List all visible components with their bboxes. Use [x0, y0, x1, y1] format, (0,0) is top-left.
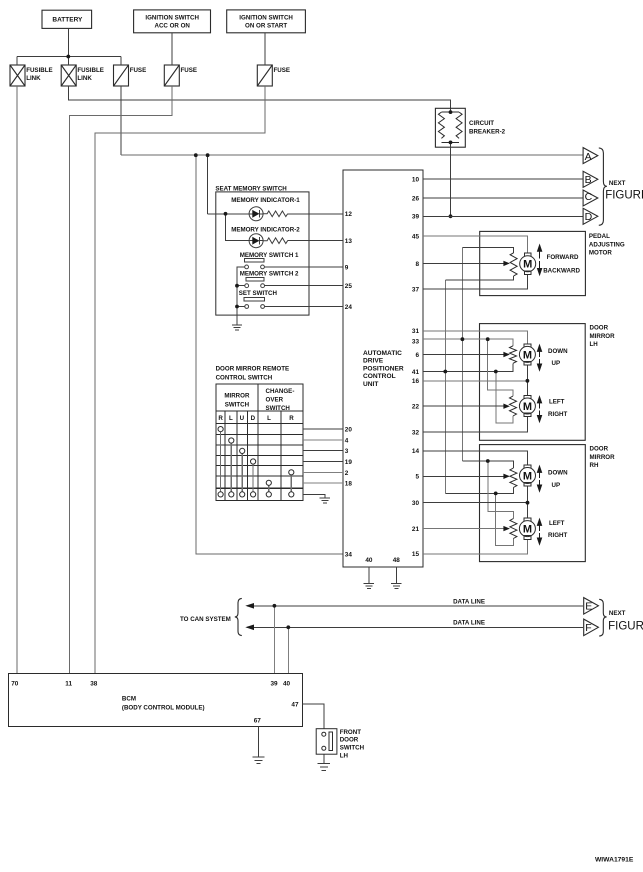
svg-text:41: 41: [412, 369, 420, 376]
contact circle CO-R: [289, 470, 294, 475]
wire pin 26 to arrow C: [423, 197, 583, 199]
svg-text:16: 16: [412, 378, 420, 385]
wire LED1 branch down to LED2: [226, 214, 250, 241]
svg-text:3: 3: [345, 448, 349, 455]
control unit U1: automatic drive positioner control unit box: [343, 170, 423, 567]
svg-text:OVER: OVER: [266, 397, 284, 404]
svg-text:47: 47: [291, 702, 299, 709]
arrow forward up: [539, 251, 541, 259]
svg-text:RIGHT: RIGHT: [548, 532, 567, 539]
wire branch RH pot2 top: [488, 461, 514, 519]
arrowhead pin 8 wiper: [503, 261, 510, 266]
svg-text:26: 26: [412, 195, 420, 202]
svg-text:11: 11: [65, 680, 72, 687]
svg-text:SET SWITCH: SET SWITCH: [239, 290, 278, 297]
wire branch LH pot2 top: [488, 339, 513, 396]
svg-text:A: A: [585, 151, 592, 163]
circuit breaker element bottom bar: [441, 141, 459, 143]
svg-text:DOOR MIRROR REMOTE: DOOR MIRROR REMOTE: [216, 365, 290, 372]
svg-text:FUSE: FUSE: [130, 67, 147, 74]
svg-text:31: 31: [412, 328, 420, 335]
mirror switch table outer box: [216, 384, 303, 501]
memory switch 1 contacts: [245, 265, 249, 269]
connector arrow B: [583, 171, 598, 187]
BCM body control module box: [9, 674, 303, 727]
fusible link FL2 box: [61, 65, 76, 86]
fuse F3 box: [257, 65, 272, 86]
svg-text:FUSIBLE: FUSIBLE: [26, 67, 52, 74]
svg-text:BATTERY: BATTERY: [52, 17, 83, 24]
resistor R1: [263, 211, 287, 217]
node pin30 motor junction: [526, 501, 530, 505]
wire CAN upper to BCM pin 39: [273, 606, 275, 674]
wire switch common vertical: [237, 267, 245, 315]
svg-text:37: 37: [412, 286, 420, 293]
wire sensor supply upper (pot tops) vertical: [461, 247, 463, 461]
motor M RH horizontal: [524, 518, 531, 522]
contact circle CO-L: [266, 480, 271, 485]
wire pin34 feed vertical: [196, 155, 343, 554]
svg-text:CONTROL: CONTROL: [363, 373, 396, 380]
svg-text:19: 19: [345, 459, 353, 466]
svg-text:DOOR: DOOR: [340, 737, 359, 744]
svg-text:TO CAN SYSTEM: TO CAN SYSTEM: [180, 616, 231, 623]
svg-text:IGNITION SWITCH: IGNITION SWITCH: [239, 15, 293, 22]
svg-text:MEMORY SWITCH 2: MEMORY SWITCH 2: [240, 271, 299, 278]
ground pin 48: [391, 583, 401, 588]
wire ACC switch to fuse F2: [171, 33, 173, 65]
bottom contact circles: [218, 492, 223, 497]
wire pin 39 to arrow D: [423, 215, 583, 217]
node RH pot1 bottom branch junction: [494, 492, 498, 496]
ground mirror switch table: [320, 498, 330, 503]
wire pin 15 to RH motor2 bottom: [423, 540, 527, 554]
resistor LH mirror sensor 2: [510, 396, 517, 416]
brace TO CAN SYSTEM: [235, 598, 242, 635]
switch front door contacts: [322, 732, 326, 736]
resistor LH mirror sensor 1: [510, 346, 517, 363]
ground front door switch: [318, 764, 330, 771]
door mirror LH box: [480, 324, 586, 441]
wire fuse F2 to BCM pin 11: [70, 86, 173, 674]
svg-text:M: M: [523, 259, 532, 271]
wire table to pin 20: [303, 428, 343, 430]
wire pin 30 to RH motor junction: [423, 502, 528, 504]
motor M pedal: [524, 253, 531, 257]
svg-text:SWITCH: SWITCH: [225, 401, 250, 408]
svg-text:DOWN: DOWN: [548, 348, 568, 355]
node supply/41 junction: [443, 370, 447, 374]
svg-text:LH: LH: [340, 752, 349, 759]
svg-text:34: 34: [345, 552, 353, 559]
svg-text:25: 25: [345, 283, 353, 290]
svg-text:R: R: [289, 415, 294, 422]
svg-text:E: E: [585, 601, 592, 613]
arrow RH down-up: [539, 472, 541, 478]
wire pin 16 to LH motor junction: [423, 380, 527, 382]
svg-text:LEFT: LEFT: [549, 520, 565, 527]
wire CAN data line upper: [247, 605, 583, 607]
wire contact R column: [220, 432, 222, 492]
svg-text:DOOR: DOOR: [590, 324, 609, 331]
wire LED2 to pin 13: [288, 240, 343, 242]
wire pin 67 ground stem: [258, 727, 260, 758]
table row line header2 bottom: [216, 422, 303, 424]
svg-text:24: 24: [345, 304, 353, 311]
svg-text:FUSE: FUSE: [181, 67, 198, 74]
memory switch 2 bar: [246, 278, 264, 281]
svg-text:MEMORY SWITCH 1: MEMORY SWITCH 1: [240, 252, 299, 259]
svg-text:33: 33: [412, 339, 420, 346]
wire bus to FL2: [67, 57, 69, 66]
wire contact D column: [252, 464, 254, 492]
svg-text:PEDAL: PEDAL: [589, 233, 610, 240]
svg-text:RH: RH: [590, 462, 599, 469]
svg-text:48: 48: [393, 557, 401, 564]
arrowhead CAN lower: [245, 625, 254, 631]
svg-text:IGNITION SWITCH: IGNITION SWITCH: [145, 15, 199, 22]
svg-text:BCM: BCM: [122, 696, 136, 703]
ignition switch ON/START box: [227, 10, 306, 33]
node RH pot1 top branch junction: [486, 459, 490, 463]
svg-text:70: 70: [11, 680, 19, 687]
wire CAN lower to BCM pin 40: [287, 627, 289, 673]
wire pin 31 to LH motor1 top: [423, 331, 527, 344]
motor M RH vertical: [524, 465, 531, 469]
svg-text:LH: LH: [590, 341, 599, 348]
svg-text:20: 20: [345, 427, 353, 434]
arrow backward down: [539, 261, 541, 269]
wire pin 41 to LH pot1 bottom: [423, 363, 513, 371]
wire pin 40 ground stem: [368, 567, 370, 583]
svg-text:AUTOMATIC: AUTOMATIC: [363, 350, 402, 357]
wire LH motor1 bottom to motor2 top: [526, 365, 528, 395]
wire pin 5 wiper: [423, 475, 504, 477]
resistor RH mirror sensor 1: [510, 468, 517, 488]
wire fuse F3 to BCM pin 38: [95, 86, 265, 674]
node pin16 motor junction: [526, 379, 530, 383]
contact circle R: [218, 427, 223, 432]
wire table to pin 2: [303, 472, 343, 474]
svg-text:39: 39: [271, 680, 279, 687]
wire RH motor1 bottom to motor2 top: [527, 487, 529, 518]
arrow LH down-up: [539, 351, 541, 357]
motor M LH vertical: [524, 344, 531, 348]
circuit breaker CB-2 outer box: [435, 108, 465, 147]
battery box: [42, 10, 92, 28]
svg-text:9: 9: [345, 264, 349, 271]
svg-text:NEXT: NEXT: [609, 610, 626, 617]
node CAN lower junction: [286, 625, 290, 629]
wire FL2 to circuit breaker: [68, 86, 450, 112]
node CAN upper junction: [273, 604, 277, 608]
node wire A / SMS feed junction: [206, 153, 210, 157]
contact circle U: [240, 448, 245, 453]
svg-text:14: 14: [412, 448, 420, 455]
wire contact L column: [230, 443, 232, 492]
wire bus to FL1: [16, 57, 18, 66]
wire set switch to pin 24: [265, 306, 344, 308]
node battery bus junction: [66, 55, 70, 59]
node switch2 common junction: [235, 284, 239, 288]
ground pin 40: [364, 583, 374, 588]
svg-text:30: 30: [412, 500, 420, 507]
arrowhead pin 22 wiper: [503, 404, 510, 409]
svg-text:L: L: [229, 415, 233, 422]
fusible link FL1 box: [10, 65, 25, 86]
wire switch2 to pin 25: [265, 285, 344, 287]
svg-text:SEAT MEMORY SWITCH: SEAT MEMORY SWITCH: [215, 185, 287, 192]
wire set switch common stub: [237, 306, 245, 308]
wire table to pin 19: [303, 461, 343, 463]
wire branch RH pot2 bottom: [496, 493, 514, 545]
memory switch 2 contacts: [245, 284, 249, 288]
svg-text:6: 6: [415, 352, 419, 359]
node 33/pot2 branch junction: [486, 337, 490, 341]
wire pin 6 wiper: [423, 354, 504, 356]
pedal adjusting motor box: [480, 231, 586, 295]
wire pin 14 to RH motor1 top: [423, 451, 528, 465]
table row line header2 top: [216, 410, 303, 412]
svg-text:(BODY CONTROL MODULE): (BODY CONTROL MODULE): [122, 704, 205, 711]
svg-text:U: U: [240, 415, 245, 422]
brace next figure A-D: [599, 148, 607, 225]
svg-text:L: L: [267, 415, 271, 422]
svg-text:MOTOR: MOTOR: [589, 250, 612, 257]
wire pedal pot top to supply: [462, 247, 513, 252]
wire SMS ground stem: [236, 315, 238, 325]
set switch contacts: [245, 305, 249, 309]
svg-text:BACKWARD: BACKWARD: [543, 268, 580, 275]
wire SMS feed vertical: [207, 155, 209, 214]
svg-text:CONTROL SWITCH: CONTROL SWITCH: [216, 375, 273, 382]
arrow RH left-right: [539, 525, 541, 531]
wire branch LH pot2 bottom: [496, 372, 513, 424]
wire LED1 to pin 12: [288, 213, 343, 215]
svg-text:22: 22: [412, 404, 420, 411]
wire pin 37 to pedal motor bottom: [423, 275, 528, 289]
svg-text:FIGURE: FIGURE: [608, 620, 643, 632]
memory switch 1 bar: [245, 259, 265, 262]
svg-text:ADJUSTING: ADJUSTING: [589, 241, 625, 248]
svg-text:M: M: [523, 524, 532, 536]
node LED feed junction: [224, 212, 228, 216]
arrowhead pin 6 wiper: [503, 352, 510, 357]
wire RH pot1 bottom supply: [445, 488, 513, 494]
svg-text:DOOR: DOOR: [590, 445, 609, 452]
svg-text:M: M: [523, 349, 532, 361]
brace next figure E-F: [599, 599, 606, 636]
arrowhead pin 21 wiper: [503, 526, 510, 531]
wire switch1 to pin 9: [264, 266, 343, 268]
connector arrow E: [584, 598, 599, 615]
svg-text:4: 4: [345, 437, 349, 444]
svg-text:MIRROR: MIRROR: [590, 333, 616, 340]
contact circle D: [251, 459, 256, 464]
svg-text:F: F: [585, 622, 591, 634]
wire SMS feed into LED1: [208, 213, 250, 215]
svg-text:SWITCH: SWITCH: [340, 745, 365, 752]
svg-text:UP: UP: [552, 482, 561, 489]
svg-text:DRIVE: DRIVE: [363, 358, 384, 365]
svg-text:15: 15: [412, 551, 420, 558]
svg-text:40: 40: [283, 680, 291, 687]
wire CAN data line lower: [247, 626, 583, 628]
svg-text:R: R: [218, 415, 223, 422]
wire fuse F1 down: [120, 86, 122, 155]
fuse F2 box: [164, 65, 179, 86]
wire table to pin 4: [303, 439, 343, 441]
connector arrow C: [583, 190, 598, 206]
wire pin 21 wiper: [423, 528, 504, 530]
wire table to pin 3: [303, 450, 343, 452]
connector arrow A: [583, 148, 598, 164]
connector arrow D: [583, 208, 598, 224]
svg-text:67: 67: [254, 718, 262, 725]
contact circle L: [229, 438, 234, 443]
motor M LH horizontal: [524, 396, 531, 400]
wire battery drop: [67, 28, 69, 56]
resistor RH mirror sensor 2: [510, 519, 517, 539]
ignition switch ACC box: [134, 10, 211, 33]
set switch bar: [244, 297, 264, 300]
wire bus to fuse F1: [120, 57, 122, 66]
wire pin 47 to front door switch: [302, 704, 323, 729]
svg-text:ACC OR ON: ACC OR ON: [154, 22, 190, 29]
svg-text:UP: UP: [552, 360, 561, 367]
connector arrow F: [584, 619, 599, 636]
svg-text:UNIT: UNIT: [363, 381, 378, 388]
diode arrow LED2: [252, 237, 259, 245]
svg-text:12: 12: [345, 211, 353, 218]
LED D1: [249, 207, 263, 221]
svg-text:RIGHT: RIGHT: [548, 411, 567, 418]
svg-text:8: 8: [415, 261, 419, 268]
door mirror RH box: [480, 445, 586, 562]
svg-text:D: D: [585, 211, 593, 223]
svg-text:FUSIBLE: FUSIBLE: [77, 67, 103, 74]
wire sensor supply lower (pot bottoms) vertical: [444, 280, 446, 493]
svg-text:C: C: [585, 191, 593, 203]
switch front door plunger bar: [329, 732, 333, 751]
svg-text:DATA LINE: DATA LINE: [453, 598, 485, 605]
seat memory switch box: [216, 192, 309, 315]
arrowhead pin 5 wiper: [503, 474, 510, 479]
node 41/pot2 branch junction: [494, 370, 498, 374]
svg-text:ON OR START: ON OR START: [245, 22, 287, 29]
svg-text:M: M: [523, 401, 532, 413]
circuit breaker element right zigzag: [456, 112, 462, 138]
svg-text:21: 21: [412, 526, 420, 533]
svg-text:CIRCUIT: CIRCUIT: [469, 120, 494, 127]
wire A fuse F1 to arrow A: [121, 154, 583, 156]
wire contact CO-L column: [268, 485, 270, 491]
svg-text:FIGURE: FIGURE: [605, 190, 643, 202]
wire breaker to wire 39/D: [450, 142, 452, 216]
svg-text:10: 10: [412, 177, 420, 184]
svg-text:B: B: [585, 174, 592, 186]
svg-text:2: 2: [345, 470, 349, 477]
switch front door LH box: [316, 729, 337, 755]
svg-text:MEMORY INDICATOR-2: MEMORY INDICATOR-2: [231, 226, 300, 233]
node wire A / pin34 feed junction: [194, 153, 198, 157]
svg-text:45: 45: [412, 234, 420, 241]
wire contact U column: [241, 454, 243, 492]
wire pin 33 to LH pot1 top: [423, 339, 513, 346]
resistor pedal position sensor: [510, 253, 517, 276]
wire pin 22 wiper: [423, 405, 504, 407]
circuit breaker element top bar: [441, 111, 459, 113]
fuse F1 box: [114, 65, 129, 86]
node breaker to wire 39 junction: [449, 214, 453, 218]
svg-text:FUSE: FUSE: [274, 67, 291, 74]
wire pedal pot bottom to supply: [445, 276, 513, 280]
svg-text:FRONT: FRONT: [340, 729, 362, 736]
node breaker top: [449, 110, 453, 114]
svg-text:LINK: LINK: [77, 75, 92, 82]
svg-text:M: M: [523, 471, 532, 483]
wire contact CO-R column: [290, 475, 292, 492]
ground BCM pin 67: [253, 757, 265, 763]
wire table to pin 18: [303, 482, 343, 484]
wire pin 8 wiper: [423, 262, 504, 264]
circuit breaker element left zigzag: [438, 112, 444, 138]
node supply/33 junction: [461, 337, 465, 341]
svg-text:40: 40: [365, 557, 373, 564]
arrowhead CAN upper: [245, 603, 254, 609]
table column lines: [224, 411, 226, 500]
svg-text:18: 18: [345, 480, 353, 487]
svg-text:LINK: LINK: [26, 75, 41, 82]
wire RH pot1 top supply: [462, 461, 513, 468]
svg-text:FORWARD: FORWARD: [547, 254, 579, 261]
wire battery bus: [17, 56, 121, 58]
svg-text:MIRROR: MIRROR: [590, 454, 616, 461]
diode arrow LED1: [252, 210, 259, 218]
LED D2: [249, 234, 263, 248]
svg-text:BREAKER-2: BREAKER-2: [469, 128, 506, 135]
svg-text:DATA LINE: DATA LINE: [453, 619, 485, 626]
resistor R2: [263, 238, 287, 244]
wire pin 10 to arrow B: [423, 178, 583, 180]
svg-text:CHANGE-: CHANGE-: [266, 388, 295, 395]
svg-text:MIRROR: MIRROR: [224, 393, 250, 400]
arrow LH left-right: [539, 403, 541, 409]
wire table ground: [303, 494, 325, 498]
ground SMS: [232, 325, 242, 330]
svg-text:32: 32: [412, 430, 420, 437]
svg-text:POSITIONER: POSITIONER: [363, 365, 404, 372]
svg-text:DOWN: DOWN: [548, 469, 568, 476]
svg-text:5: 5: [415, 474, 419, 481]
wire pin 45 to pedal motor top: [423, 236, 528, 253]
wire ON/START switch to fuse F3: [264, 33, 266, 65]
svg-text:NEXT: NEXT: [609, 180, 626, 187]
svg-text:LEFT: LEFT: [549, 398, 565, 405]
table row lines: [216, 434, 303, 436]
wire switch2 common stub: [237, 285, 245, 287]
wire FL1 down to BCM pin 70: [16, 86, 18, 674]
svg-text:39: 39: [412, 214, 420, 221]
svg-text:MEMORY INDICATOR-1: MEMORY INDICATOR-1: [231, 197, 300, 204]
wire pin 48 ground stem: [395, 567, 397, 583]
svg-text:D: D: [251, 415, 256, 422]
svg-text:WIWA1791E: WIWA1791E: [595, 857, 634, 864]
node set switch common junction: [235, 305, 239, 309]
svg-text:13: 13: [345, 238, 353, 245]
table header divider: [257, 384, 259, 501]
wire pin 32 to LH motor2 bottom: [423, 417, 527, 432]
